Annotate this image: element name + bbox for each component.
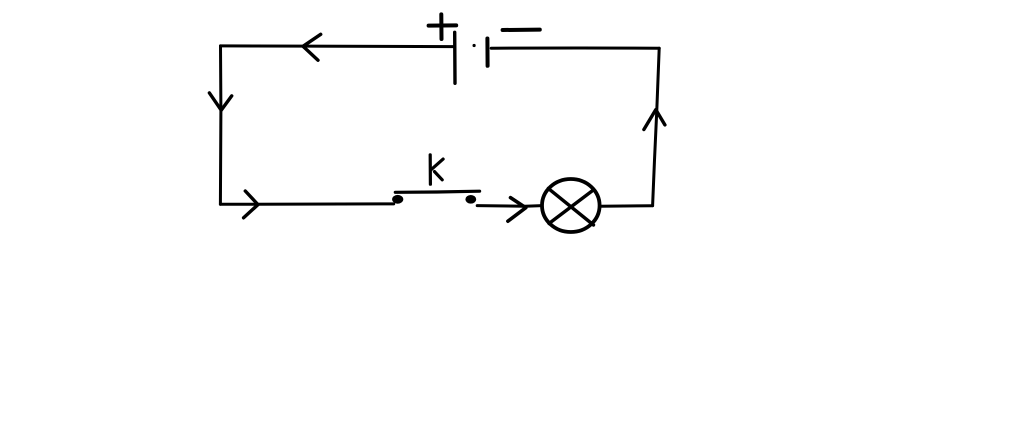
wire battery to top-right corner xyxy=(491,47,659,50)
current arrow up (right wire) xyxy=(644,110,665,130)
battery B1 short plate (negative) xyxy=(485,39,489,66)
wire bottom-right segment (lamp to corner) xyxy=(600,204,653,207)
wire top-left segment xyxy=(221,44,455,48)
lamp L1 xyxy=(542,179,600,232)
wire switch to lamp xyxy=(477,204,542,208)
current arrow right (before lamp) xyxy=(508,198,526,222)
wire bottom-left segment xyxy=(220,202,393,205)
wire right vertical xyxy=(653,48,660,205)
battery B1 plus label xyxy=(429,14,457,39)
battery B1 center dot xyxy=(473,44,476,47)
switch K left contact dot xyxy=(392,195,403,204)
switch label K xyxy=(430,155,443,184)
battery B1 long plate (positive) xyxy=(453,32,457,83)
current arrow right (bottom-left wire) xyxy=(244,191,258,218)
wire left vertical xyxy=(219,46,223,204)
switch K blade xyxy=(395,191,479,192)
current arrow down (left wire) xyxy=(209,93,231,110)
current arrow left (top wire) xyxy=(303,34,321,60)
switch K right contact dot xyxy=(465,195,476,204)
battery B1 minus label xyxy=(503,28,540,32)
